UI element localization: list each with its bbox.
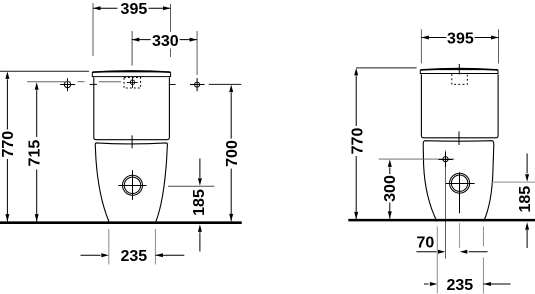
supply centerline tick at tank edge (front): [90, 83, 97, 85]
svg-text:235: 235: [120, 248, 147, 265]
extension line 395-left (front): [92, 3, 94, 56]
dimension 235 (side): [424, 282, 511, 286]
dimension 770 (front): [5, 71, 9, 221]
dimension 185 (side): [525, 154, 529, 249]
extension line tank top (side): [356, 67, 416, 69]
svg-text:300: 300: [382, 175, 399, 202]
extension line 330-right (front): [196, 31, 198, 75]
supply level dashed line (front): [27, 81, 121, 83]
dimension 300: [388, 159, 392, 219]
cistern body (side): [421, 74, 498, 137]
bowl (front): [95, 143, 167, 222]
extension line tank top (front): [0, 70, 89, 72]
seat fixing marker (side): [439, 152, 453, 167]
dimension 330: [132, 38, 197, 42]
dimension 185 (front): [168, 159, 214, 252]
flush button dashed outline (side): [452, 74, 468, 84]
cistern lid (side): [420, 70, 498, 74]
cistern body (front): [94, 77, 170, 139]
outlet centerline below ground (side): [459, 223, 461, 248]
svg-text:70: 70: [417, 235, 435, 252]
outlet crosshair circle (front): [118, 170, 146, 200]
tank bottom centerline tick (front): [131, 135, 133, 148]
dimension 715: [35, 82, 39, 221]
svg-text:185: 185: [517, 186, 534, 213]
ground line (front): [0, 221, 242, 224]
dimension 70: [416, 250, 487, 254]
extension line 395-right (front): [170, 4, 172, 32]
cistern lid (front): [92, 72, 170, 77]
flush button dashed outline (front): [124, 78, 141, 89]
water inlet marker right (front): [190, 78, 205, 91]
flush button marker (front): [127, 77, 138, 88]
extension line 330-left / tank centerline (front): [131, 31, 133, 66]
dimension 770 (side): [354, 68, 358, 220]
cistern lid top arc (front): [93, 71, 171, 72]
seat fixing line (side): [379, 158, 455, 160]
svg-text:770: 770: [0, 131, 17, 158]
bowl (side): [423, 141, 494, 222]
dimension 235 (front): [81, 253, 185, 257]
tank bottom centerline tick (side): [458, 131, 460, 145]
cistern lid top arc (side): [421, 69, 498, 70]
outlet crosshair circle (side): [446, 172, 475, 213]
extension line 235-left (front): [108, 229, 110, 265]
svg-text:395: 395: [121, 1, 148, 18]
extension line 185 (side): [492, 181, 535, 183]
svg-text:235: 235: [446, 277, 473, 294]
dimension 700: [229, 85, 233, 222]
svg-text:185: 185: [191, 189, 208, 216]
svg-text:700: 700: [224, 140, 241, 167]
extension line 70-left through marker (side): [445, 151, 447, 259]
extension line 235-right (front): [154, 229, 156, 265]
extension line 700 top: [209, 83, 241, 85]
supply dashes right of tank (front): [169, 84, 176, 86]
extension line 395-right (side): [498, 29, 500, 63]
svg-text:770: 770: [349, 128, 366, 155]
lid centerline tick (side): [458, 64, 460, 75]
extension line 395-left (side): [420, 29, 422, 63]
dimension 395 (side): [421, 36, 498, 40]
ground line (side): [348, 219, 535, 222]
svg-text:330: 330: [152, 33, 179, 50]
svg-text:395: 395: [447, 30, 474, 47]
svg-text:715: 715: [26, 140, 43, 167]
extension line 235-right (side): [482, 227, 484, 247]
extension line 235-left (side): [436, 227, 438, 294]
dimension 395 (front): [93, 6, 171, 10]
water inlet marker left (front): [60, 78, 75, 91]
